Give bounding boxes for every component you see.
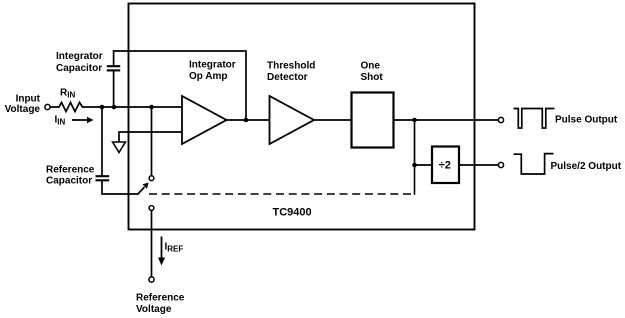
wire to divide-by-2 bbox=[415, 164, 433, 166]
svg-text:Pulse/2 Output: Pulse/2 Output bbox=[551, 161, 622, 172]
wire branch down to divider bbox=[414, 120, 416, 165]
node at x=151.5 bbox=[149, 105, 154, 110]
svg-text:Reference: Reference bbox=[46, 164, 95, 175]
wire switch to reference voltage terminal bbox=[151, 210, 153, 277]
one shot U3 bbox=[352, 93, 394, 148]
TC9400 IC boundary box bbox=[129, 4, 475, 230]
svg-text:TC9400: TC9400 bbox=[273, 207, 312, 219]
switch blade bbox=[138, 187, 145, 195]
node at x=114 bbox=[112, 105, 117, 110]
node pulse branch bbox=[412, 118, 417, 123]
dashed control line bbox=[149, 193, 415, 195]
switch contact (top) bbox=[149, 176, 154, 181]
pulse output terminal bbox=[498, 117, 503, 122]
wire input to op-amp bbox=[84, 106, 182, 108]
wire node to integrator capacitor (up) bbox=[113, 71, 115, 108]
node divider input bbox=[412, 163, 417, 168]
svg-text:Reference: Reference bbox=[136, 293, 185, 304]
svg-text:Integrator: Integrator bbox=[189, 59, 236, 70]
wire threshold to one shot bbox=[314, 119, 352, 121]
svg-text:Integrator: Integrator bbox=[56, 51, 103, 62]
op-amp U1 integrator bbox=[182, 96, 227, 144]
svg-text:Detector: Detector bbox=[267, 72, 308, 83]
input terminal bbox=[45, 104, 50, 109]
reference voltage terminal bbox=[149, 277, 154, 282]
svg-text:Voltage: Voltage bbox=[5, 104, 41, 115]
pulse/2 waveform icon bbox=[514, 154, 554, 174]
dashed line riser to divide-by-2 bbox=[414, 165, 416, 195]
svg-text:Shot: Shot bbox=[361, 72, 384, 83]
svg-text:Op Amp: Op Amp bbox=[189, 71, 228, 82]
pulse waveform icon bbox=[514, 109, 555, 129]
wire node to reference capacitor (down) bbox=[101, 107, 103, 176]
wire divider to pulse/2 output bbox=[459, 164, 498, 166]
wire node down to switch contact bbox=[151, 107, 153, 176]
ground bbox=[113, 142, 126, 153]
svg-text:Voltage: Voltage bbox=[136, 304, 172, 315]
divide-by-2 U4 bbox=[432, 147, 459, 184]
switch contact (bottom) bbox=[149, 206, 154, 211]
svg-text:Threshold: Threshold bbox=[267, 60, 315, 71]
wire ref capacitor to switch pivot bbox=[102, 180, 138, 194]
svg-text:Capacitor: Capacitor bbox=[46, 176, 92, 187]
integrator capacitor bbox=[107, 69, 120, 71]
svg-text:Capacitor: Capacitor bbox=[56, 63, 102, 74]
svg-text:Pulse Output: Pulse Output bbox=[555, 115, 618, 126]
pulse/2 output terminal bbox=[498, 162, 503, 167]
resistor RIN bbox=[50, 103, 84, 112]
IREF current arrow bbox=[161, 237, 163, 259]
wire op-amp out to threshold detector bbox=[227, 119, 270, 121]
threshold detector U2 bbox=[270, 96, 315, 144]
svg-text:One: One bbox=[361, 60, 381, 71]
wire ground to op-amp + input bbox=[119, 132, 182, 142]
reference capacitor bbox=[96, 175, 110, 177]
svg-text:÷2: ÷2 bbox=[439, 159, 451, 171]
node at x=102 bbox=[100, 105, 105, 110]
node op-amp output bbox=[244, 118, 249, 123]
IIN current arrow bbox=[72, 119, 87, 121]
wire one shot to pulse output bbox=[394, 119, 499, 121]
feedback wire cap to op-amp output bbox=[114, 51, 246, 120]
